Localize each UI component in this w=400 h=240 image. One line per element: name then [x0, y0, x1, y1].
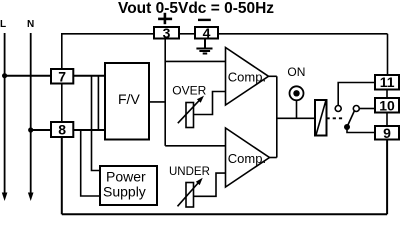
- wire L rail: [4, 33, 6, 194]
- svg-text:L: L: [0, 19, 6, 30]
- svg-text:N: N: [27, 19, 34, 30]
- wire bottom common: [62, 213, 387, 215]
- svg-text:10: 10: [379, 97, 395, 113]
- junction dot L: [2, 73, 7, 78]
- contact NO circle: [353, 106, 359, 112]
- wire F/V output: [149, 101, 165, 103]
- terminal 7: [51, 69, 73, 84]
- wire terminal 7 to terminal 8: [61, 83, 63, 122]
- wire terminal 9 bottom riser: [386, 140, 388, 215]
- wire to terminal 10: [359, 108, 375, 110]
- svg-text:Vout 0-5Vdc = 0-50Hz: Vout 0-5Vdc = 0-50Hz: [118, 0, 274, 17]
- svg-text:8: 8: [58, 122, 66, 138]
- svg-text:ON: ON: [287, 65, 305, 79]
- wire 8 to power supply: [81, 130, 100, 196]
- wire N rail: [30, 33, 32, 194]
- comparator lower: [226, 128, 270, 187]
- wire to lower comp input: [165, 145, 225, 147]
- wire terminal 3 riser: [62, 34, 154, 69]
- arrow L rail: [2, 193, 8, 202]
- svg-text:3: 3: [163, 25, 171, 41]
- wire comparator outputs: [269, 75, 277, 77]
- block F/V: [105, 63, 149, 140]
- block Power Supply: [100, 166, 157, 205]
- svg-text:OVER: OVER: [172, 84, 206, 98]
- wire 3 to 4: [179, 33, 195, 35]
- svg-text:11: 11: [380, 74, 395, 90]
- wire 7 to power supply: [92, 76, 101, 171]
- ground: [196, 39, 212, 54]
- terminal 3: [154, 27, 179, 39]
- wire L to terminal 7: [5, 75, 50, 77]
- contact NC circle: [335, 106, 341, 112]
- wire 10 to 9: [386, 113, 388, 127]
- switch armature: [347, 111, 354, 127]
- wire UNDER wiper to comp: [194, 173, 226, 196]
- plus sign: [158, 13, 172, 24]
- wire terminal 7 to F/V: [73, 75, 105, 77]
- wire LED stub: [296, 100, 298, 118]
- wire vertical link x98: [97, 76, 99, 130]
- wire 11 to 10: [386, 90, 388, 99]
- svg-text:Comp.: Comp.: [228, 151, 266, 166]
- relay coil: [315, 100, 327, 136]
- svg-text:9: 9: [383, 125, 391, 141]
- wire node Vout vertical: [164, 39, 166, 146]
- terminal 4: [195, 27, 218, 39]
- comparator upper: [226, 48, 269, 106]
- svg-text:7: 7: [58, 68, 66, 84]
- svg-text:4: 4: [203, 25, 211, 41]
- wire corner to terminal 11: [387, 34, 389, 75]
- terminal 8: [51, 122, 73, 137]
- dashed actuator link: [327, 117, 344, 119]
- LED ON: [290, 86, 304, 100]
- svg-text:Power: Power: [106, 169, 146, 185]
- wire to terminal 11: [338, 83, 375, 106]
- svg-text:F/V: F/V: [118, 91, 140, 107]
- switch common dot: [344, 124, 350, 130]
- junction dot N: [28, 127, 33, 132]
- wire to upper comp input: [165, 60, 225, 62]
- terminal 10: [375, 98, 399, 113]
- wire to terminal 9: [347, 127, 375, 133]
- wire terminal 8 bottom riser: [61, 137, 63, 214]
- potentiometer OVER: [186, 103, 194, 128]
- minus sign: [198, 19, 211, 21]
- svg-text:Supply: Supply: [103, 184, 146, 200]
- wire N to terminal 8: [31, 129, 50, 131]
- wire terminal 8 to F/V: [73, 129, 105, 131]
- potentiometer UNDER: [186, 183, 194, 208]
- wire OVER wiper to comp: [193, 92, 225, 115]
- arrow N rail: [28, 193, 34, 202]
- wire to relay coil: [277, 117, 315, 119]
- terminal 11: [375, 75, 399, 90]
- wire 4 to corner: [218, 33, 388, 35]
- terminal 9: [375, 126, 399, 140]
- svg-text:UNDER: UNDER: [169, 166, 210, 178]
- svg-text:Comp.: Comp.: [228, 69, 266, 84]
